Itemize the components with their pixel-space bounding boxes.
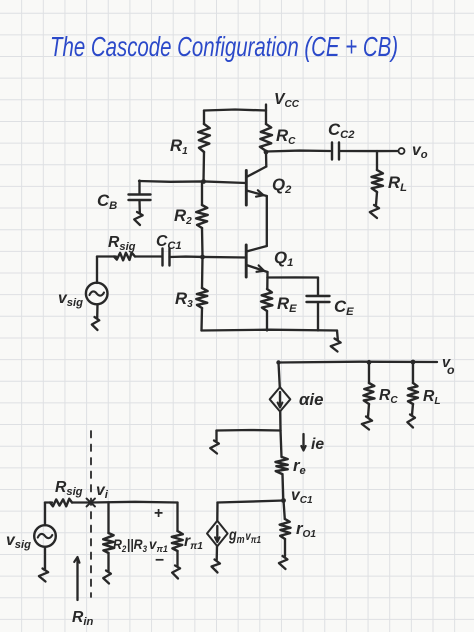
label R3: [175, 289, 193, 310]
svg-text:+: +: [154, 505, 163, 522]
label R23: [113, 536, 147, 554]
label ie: [311, 436, 324, 453]
wire gm stub: [216, 503, 219, 522]
label CC1: [156, 233, 182, 252]
ground vsig: [92, 317, 100, 330]
svg-text:RC: RC: [379, 387, 398, 406]
wire R2 top: [201, 182, 203, 206]
capacitor CC1: [163, 249, 170, 266]
wire rpi1 bottom: [176, 551, 178, 566]
wire Rc2 stub: [368, 362, 370, 383]
label vo: [412, 142, 428, 161]
label vsig2: [6, 532, 31, 551]
svg-text:VCC: VCC: [274, 91, 300, 110]
wire ro1 bottom: [284, 539, 286, 556]
line Rin dashed: [90, 431, 92, 597]
wire base stub: [215, 431, 217, 442]
label vpi1: [149, 537, 168, 554]
svg-text:RL: RL: [423, 388, 441, 407]
svg-text:R2: R2: [174, 206, 192, 227]
svg-text:vi: vi: [96, 482, 109, 501]
wire CC1 to Q1 base: [170, 255, 247, 258]
wire Rsig2 to node: [72, 501, 91, 503]
wire vsig to Rsig: [97, 255, 116, 257]
ground CB: [134, 212, 143, 225]
label vpi1 plus: [154, 505, 163, 522]
wire RL2 bottom: [412, 404, 413, 415]
svg-text:ie: ie: [311, 436, 324, 453]
label vc1: [291, 487, 313, 506]
capacitor CC2: [332, 143, 339, 160]
resistor ro1: [280, 519, 291, 539]
wire RE bottom: [266, 311, 268, 331]
svg-text:Rsig: Rsig: [55, 479, 83, 498]
wire R3 bottom: [200, 308, 203, 331]
wire source bottom: [279, 412, 282, 431]
wire vsig2 top: [44, 503, 46, 526]
ground vsig2: [39, 569, 48, 582]
resistor R23: [103, 533, 114, 553]
ground RL2: [407, 415, 415, 428]
wire CB bottom: [138, 200, 141, 213]
label RE: [277, 294, 297, 315]
wire rail end: [336, 331, 339, 340]
ground rpi1: [172, 566, 180, 579]
label Rsig2: [55, 479, 83, 498]
transistor Q2: [246, 152, 266, 205]
label vsig: [58, 290, 83, 309]
wire CE bottom: [317, 302, 319, 331]
wire ro1 stub: [284, 501, 285, 520]
label R1: [170, 136, 188, 157]
wire node to rpi1: [91, 501, 178, 504]
svg-text:CC1: CC1: [156, 233, 182, 252]
current source alpha-ie: [270, 387, 291, 411]
current source gm-vpi1: [207, 521, 228, 547]
label Q1: [274, 248, 293, 269]
node source top dot: [276, 360, 280, 364]
label Rin: [72, 609, 93, 628]
title: The Cascode Configuration (CE + CB): [50, 32, 398, 63]
wire vc1 to gm: [218, 501, 284, 503]
svg-text:Rin: Rin: [72, 609, 93, 628]
wire rpi1 stub: [176, 503, 178, 532]
label Rc2: [379, 387, 398, 406]
label rpi1: [184, 533, 203, 552]
svg-text:gmvπ1: gmvπ1: [228, 527, 261, 546]
svg-text:CC2: CC2: [328, 120, 355, 141]
ground ro1: [279, 556, 288, 569]
wire RL bottom: [376, 192, 377, 205]
label re: [293, 456, 306, 477]
wire vsig bottom: [96, 304, 99, 318]
label CC2: [328, 120, 355, 141]
resistor RL: [372, 170, 383, 192]
ground RL: [370, 205, 379, 218]
wire output rail 2: [278, 361, 437, 364]
svg-text:o: o: [447, 363, 455, 377]
label CB: [97, 191, 117, 212]
wire Q2 emitter to Q1 collector: [266, 196, 268, 246]
label vi: [96, 482, 109, 501]
wire R23 stub: [107, 503, 109, 534]
node vc1 dot: [281, 498, 286, 503]
resistor R3: [196, 288, 207, 308]
ground R23: [103, 571, 111, 584]
transistor Q1: [246, 245, 267, 277]
wire to re: [281, 431, 282, 458]
wire CB: [138, 181, 140, 195]
svg-text:rO1: rO1: [296, 519, 316, 540]
wire Rsig to CC1: [135, 255, 162, 257]
svg-text:rπ1: rπ1: [184, 533, 203, 552]
label R2: [174, 206, 192, 227]
node Q2 base dot: [201, 179, 206, 184]
label vpi1 minus: [155, 552, 164, 569]
svg-text:CE: CE: [334, 297, 354, 318]
wire R23 bottom: [107, 553, 109, 571]
svg-text:vo: vo: [412, 142, 428, 161]
label vo2: [442, 355, 455, 377]
resistor Rsig2: [50, 499, 72, 507]
svg-text:Q2: Q2: [272, 175, 292, 196]
svg-text:RE: RE: [277, 294, 297, 315]
node Rc2 dot: [367, 360, 372, 365]
wire gm bottom: [216, 546, 219, 560]
label Rc: [276, 126, 296, 147]
source vsig2: [34, 525, 56, 547]
svg-text:CB: CB: [97, 191, 117, 212]
svg-text:vsig: vsig: [58, 290, 83, 309]
wire Q1 emitter: [266, 272, 269, 289]
node vi X: [87, 499, 96, 507]
wire bottom rail: [202, 329, 338, 332]
capacitor CE: [307, 296, 330, 302]
label RL: [388, 173, 407, 194]
ground gm: [212, 560, 221, 573]
wire CE top: [317, 278, 319, 296]
ground Rc2: [362, 417, 372, 430]
ground rail: [331, 339, 341, 352]
label alpha-ie: [299, 390, 323, 409]
wire base rail: [217, 429, 281, 432]
label gm-vpi1: [228, 527, 261, 546]
resistor rpi1: [172, 531, 183, 551]
node emitter wire: [267, 276, 318, 278]
wire vsig top: [96, 257, 98, 284]
node RL2 dot: [411, 360, 416, 365]
resistor RL2: [408, 383, 418, 404]
resistor Rc: [260, 124, 272, 151]
label ro1: [296, 519, 316, 540]
label Rsig: [108, 234, 136, 253]
svg-text:αie: αie: [299, 390, 323, 409]
svg-text:The Cascode Configuration (CE: The Cascode Configuration (CE + CB): [50, 32, 398, 63]
wire source top: [279, 363, 280, 388]
resistor RE: [261, 289, 272, 311]
wire R1 bottom: [202, 152, 205, 182]
terminal vo circle: [399, 148, 405, 154]
svg-text:re: re: [293, 456, 306, 477]
capacitor CB: [129, 195, 151, 201]
wire top rail: [204, 110, 266, 111]
label Q2: [272, 175, 292, 196]
arrow ie direction: [301, 434, 305, 451]
wire Rc2 bottom: [368, 404, 369, 417]
wire vsig2 bottom: [44, 547, 46, 569]
wire R1 stub: [203, 111, 205, 125]
resistor Rsig: [114, 253, 135, 261]
resistor re: [276, 457, 288, 474]
node collector Q2 dot: [264, 150, 269, 155]
label Vcc: [274, 91, 300, 110]
ground base: [210, 441, 219, 454]
label CE: [334, 297, 354, 318]
svg-text:RL: RL: [388, 173, 407, 194]
svg-text:RC: RC: [276, 126, 296, 147]
resistor R1: [198, 124, 210, 152]
wire CC2 to vo: [340, 150, 398, 152]
resistor Rc2: [363, 383, 374, 404]
svg-text:Rsig: Rsig: [108, 234, 136, 253]
label RL2: [423, 388, 441, 407]
svg-text:−: −: [155, 552, 164, 569]
svg-text:vsig: vsig: [6, 532, 31, 551]
wire R2 bottom: [201, 228, 204, 256]
wire re bottom: [281, 474, 284, 500]
node base Q1 dot: [200, 255, 205, 260]
svg-text:R2||R3: R2||R3: [113, 536, 147, 554]
source vsig: [86, 283, 108, 305]
wire vsig2 to Rsig: [45, 501, 52, 503]
wire RL2 stub: [412, 362, 414, 383]
wire RL stub: [376, 151, 378, 170]
wire Vcc stub: [265, 105, 267, 125]
arrow Rin: [74, 557, 79, 600]
resistor R2: [196, 205, 208, 228]
wire output: [266, 149, 330, 152]
svg-text:R3: R3: [175, 289, 193, 310]
svg-text:R1: R1: [170, 136, 188, 157]
wire R3 top: [201, 257, 204, 288]
wire Q2 base: [139, 181, 246, 183]
